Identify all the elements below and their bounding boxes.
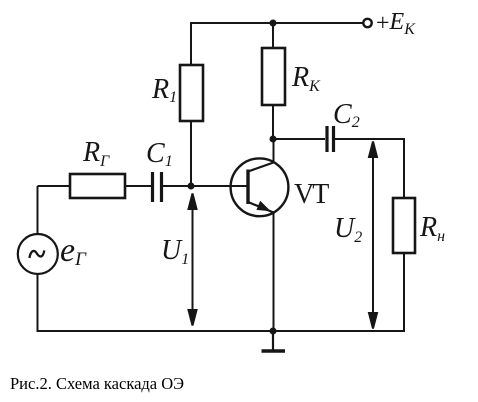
svg-text:eГ: eГ (60, 232, 87, 270)
svg-text:C1: C1 (146, 138, 173, 170)
wire input row (38, 185, 71, 187)
wire top rail (191, 22, 363, 24)
arrow U2 (369, 142, 377, 329)
wire C1 to base (162, 185, 247, 187)
wire collector node to C2 (273, 138, 325, 140)
caption (10, 374, 184, 394)
wire bottom rail (37, 330, 406, 332)
source eГ (18, 234, 58, 274)
ground (262, 331, 286, 351)
wire Rн bottom (403, 253, 405, 332)
svg-text:U1: U1 (161, 235, 189, 268)
resistor R1 (180, 65, 203, 121)
svg-text:Rн: Rн (419, 212, 445, 245)
terminal +EК (363, 19, 371, 27)
label ~ inside source (30, 250, 45, 258)
node ground junction dot (270, 328, 277, 335)
wire R1 bottom to base node (190, 121, 192, 186)
svg-text:U2: U2 (334, 213, 362, 246)
node top rail junction dot (270, 20, 277, 27)
wire source to bottom rail (37, 274, 39, 332)
wire RK branch top (272, 23, 274, 48)
wire R1 branch top (190, 22, 192, 65)
wire collector vertical (273, 139, 275, 163)
svg-text:+EК: +EК (376, 9, 416, 38)
resistor Rн (393, 198, 415, 253)
transistor VT (231, 158, 289, 216)
svg-text:RГ: RГ (82, 137, 110, 170)
wire RK bottom to collector node (272, 105, 274, 139)
wire C2 to output corner (334, 138, 404, 140)
capacitor C2 (327, 126, 334, 152)
svg-text:RК: RК (291, 62, 321, 95)
wire left input down to source (37, 186, 39, 234)
resistor RK (262, 48, 285, 105)
svg-text:VT: VT (294, 179, 329, 210)
arrow U1 (189, 194, 197, 326)
node base junction dot (188, 183, 195, 190)
wire RГ to C1 (125, 185, 151, 187)
resistor RГ (70, 174, 125, 198)
wire emitter vertical (273, 212, 275, 331)
svg-text:C2: C2 (333, 99, 360, 131)
capacitor C1 (153, 172, 162, 202)
node collector junction dot (270, 136, 277, 143)
wire output right branch down (403, 138, 405, 198)
svg-text:R1: R1 (151, 74, 177, 106)
